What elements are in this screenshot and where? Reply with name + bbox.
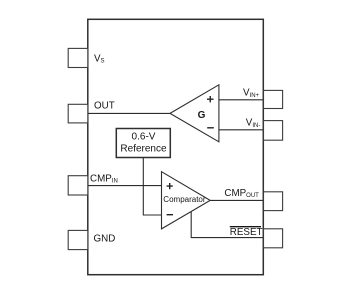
svg-text:VIN+: VIN+ — [243, 88, 260, 99]
svg-text:0.6-V: 0.6-V — [132, 132, 156, 143]
op-amp minus input sign — [207, 127, 214, 129]
comparator U2 — [162, 172, 211, 229]
wire VIN+ input — [219, 99, 263, 101]
svg-text:OUT: OUT — [94, 100, 115, 111]
pin box Vs — [68, 48, 88, 67]
RESET active-low overline — [230, 226, 261, 228]
op-amp U1 gain stage — [170, 85, 219, 142]
wire CMPIN to comparator plus input — [88, 185, 162, 187]
svg-text:Reference: Reference — [120, 144, 167, 155]
wire RESET from comparator lower edge — [191, 212, 263, 238]
svg-text:Comparator: Comparator — [163, 195, 206, 204]
comparator minus input sign — [167, 214, 173, 216]
pin box VIN+ — [263, 90, 282, 108]
wire OUT to op-amp apex — [88, 112, 170, 114]
comparator plus input sign — [167, 183, 173, 189]
pin box CMPOUT — [263, 192, 282, 211]
pin box OUT — [68, 104, 88, 123]
0.6-V reference box — [116, 129, 170, 158]
pin box CMPIN — [68, 176, 88, 195]
svg-text:VS: VS — [94, 54, 105, 65]
svg-text:CMPOUT: CMPOUT — [224, 188, 259, 199]
svg-text:G: G — [198, 110, 206, 121]
IC body U1 — [88, 19, 263, 274]
pin box GND — [68, 230, 88, 249]
op-amp plus input sign — [207, 96, 214, 102]
svg-text:CMPIN: CMPIN — [90, 173, 118, 184]
pin box VIN- — [263, 121, 282, 141]
wire VIN- input — [219, 129, 263, 131]
svg-text:GND: GND — [94, 233, 116, 244]
wire CMPOUT output — [210, 199, 263, 201]
wire reference to comparator minus input — [143, 158, 161, 216]
svg-text:RESET: RESET — [230, 227, 263, 238]
pin box RESET — [263, 229, 282, 248]
svg-text:VIN-: VIN- — [246, 118, 261, 129]
